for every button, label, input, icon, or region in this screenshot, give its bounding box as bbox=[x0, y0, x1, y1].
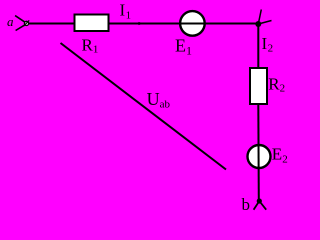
wire R1 to node (passes through E1) bbox=[110, 23, 259, 25]
resistor R2 bbox=[250, 68, 267, 104]
svg-text:b: b bbox=[242, 195, 251, 214]
wire node to R2 bbox=[257, 24, 259, 68]
terminal a arrowhead bbox=[15, 16, 25, 31]
voltage arrow Uab bbox=[61, 43, 227, 170]
terminal b arrowhead legs bbox=[254, 201, 267, 210]
svg-text:a: a bbox=[7, 14, 14, 29]
node tick right bbox=[258, 21, 271, 25]
terminal b dot bbox=[257, 198, 262, 203]
current arrow I1 bbox=[139, 22, 144, 25]
node junction dot bbox=[255, 21, 261, 27]
terminal a slash bbox=[24, 20, 29, 26]
wire a to R1 bbox=[29, 23, 74, 25]
source E1 bbox=[180, 11, 205, 36]
terminal a circle bbox=[24, 21, 28, 25]
wire R2 to terminal b (passes through E2) bbox=[257, 104, 260, 200]
resistor R1 bbox=[75, 15, 109, 32]
source E2 bbox=[248, 145, 271, 168]
node tick up bbox=[258, 10, 261, 25]
